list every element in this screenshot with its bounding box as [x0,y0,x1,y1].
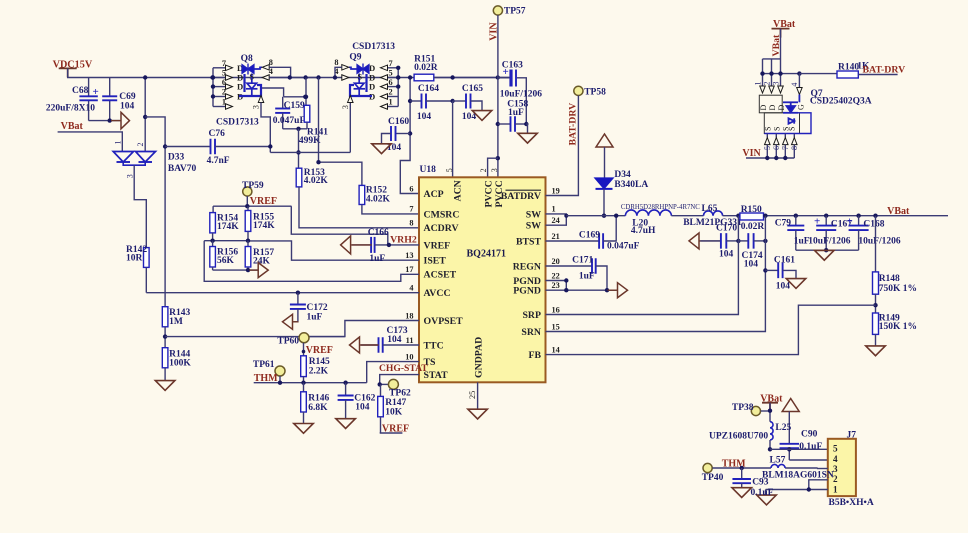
wire TP38 node [761,410,770,412]
svg-text:14: 14 [552,345,560,354]
wire switch node row [270,151,350,153]
wire arrow to C90 [788,412,790,444]
svg-text:C168: C168 [863,219,884,229]
net label VREF at R147 [380,424,409,435]
capacitor C174 [738,233,765,269]
wire pin2 pin1 [809,480,828,490]
wire to ground J7 [765,490,767,495]
svg-text:GNDPAD: GNDPAD [473,337,484,378]
svg-text:5: 5 [833,444,838,454]
svg-text:ISET: ISET [424,256,447,267]
svg-text:VBat: VBat [887,206,910,217]
svg-text:1: 1 [833,484,838,494]
wire cap ground bus [796,249,859,251]
wire SRP column [546,216,739,315]
svg-text:10uF/1206: 10uF/1206 [808,236,850,246]
pin PGND U18 [513,281,560,297]
testpoint TP60 [277,333,309,347]
svg-text:BQ24171: BQ24171 [467,249,506,260]
svg-text:+: + [93,86,99,98]
svg-text:+: + [503,66,509,78]
svg-text:L57: L57 [770,456,786,466]
svg-text:56K: 56K [217,256,235,266]
svg-text:C172: C172 [307,303,328,313]
resistor R142 [126,245,149,268]
svg-text:1: 1 [222,98,226,107]
wire C68 C69 bottom [89,120,120,122]
svg-text:CDRH5D28RHPNP-4R7NC: CDRH5D28RHPNP-4R7NC [621,204,700,211]
svg-text:C164: C164 [418,84,439,94]
wire arrow to D34 [604,147,606,178]
svg-text:CSD17313: CSD17313 [352,42,395,52]
svg-text:D: D [369,63,375,73]
resistor R154 [210,206,239,241]
svg-text:1uF: 1uF [579,271,595,281]
resistor R153 [296,168,328,187]
svg-text:0.02R: 0.02R [414,63,438,73]
svg-text:VBat: VBat [61,121,84,132]
svg-text:1uF: 1uF [307,313,323,323]
ground under GNDPAD [468,409,488,419]
testpoint TP40 [702,463,724,483]
wire VREF net to C166 [291,206,388,245]
svg-text:6.8K: 6.8K [308,403,328,413]
svg-text:PGND: PGND [513,286,541,297]
svg-text:R150: R150 [741,205,762,215]
wire pin5 row [770,448,828,450]
wire ACN column x410 [400,78,419,194]
capacitor C164 [410,84,453,122]
transistor Q7 CSD25402Q3A [753,82,871,159]
svg-text:PVCC: PVCC [494,180,505,207]
resistor R144 [162,348,191,381]
testpoint TP57 [493,6,525,17]
svg-text:4.02K: 4.02K [304,176,329,186]
svg-text:L65: L65 [702,204,718,214]
inductor L20 [621,204,700,236]
svg-text:D: D [768,105,777,111]
svg-text:BAT-DRV: BAT-DRV [568,103,579,146]
svg-text:5: 5 [445,168,454,172]
wire Q8 pin8 loop [269,67,290,77]
svg-text:G: G [797,104,806,110]
pin TTC U18 [406,336,444,352]
svg-text:C93: C93 [752,478,769,488]
svg-text:174K: 174K [253,221,275,231]
svg-text:D: D [777,105,786,111]
svg-text:750K 1%: 750K 1% [879,284,917,294]
wire R152 to CMSRC [362,205,419,214]
svg-text:S: S [358,73,363,82]
svg-text:BAV70: BAV70 [168,164,197,174]
svg-text:3: 3 [490,168,499,172]
pin AVCC U18 [409,284,450,300]
svg-text:R148: R148 [879,274,900,284]
svg-text:0.1uF: 0.1uF [799,442,822,452]
svg-text:220uF/8X10: 220uF/8X10 [46,104,95,114]
svg-text:C160: C160 [388,117,409,127]
svg-text:B340LA: B340LA [614,180,648,190]
svg-text:VREF: VREF [306,345,333,356]
diode D33 BAV70 [113,152,196,175]
capacitor C76 [165,129,270,166]
svg-text:4: 4 [790,83,799,87]
resistor R141 [299,105,328,146]
svg-text:2: 2 [222,88,226,97]
svg-text:L25: L25 [775,423,791,433]
pin SRP U18 [522,305,559,321]
svg-text:8: 8 [269,58,273,67]
capacitor C170 [700,224,738,260]
capacitor C159 [273,97,306,129]
svg-text:D: D [369,82,375,92]
wire L20 to L65 [671,215,703,217]
svg-text:S: S [773,127,782,131]
svg-text:BAT-DRV: BAT-DRV [863,65,906,76]
wire rail to R152 branch [319,78,362,186]
svg-text:7: 7 [409,205,413,214]
resistor R143 [162,307,190,348]
wire R153 to ACDRV [299,187,419,228]
svg-text:2: 2 [762,82,771,86]
pin PGND U18 [513,271,560,287]
power arrow at C172 [293,321,299,323]
ground under C93 [732,488,752,498]
svg-text:C171: C171 [572,256,593,266]
svg-text:4.7uH: 4.7uH [631,226,656,236]
power port VDC15V [53,60,93,78]
op-amp U18 BQ24171 body [419,165,546,382]
svg-text:0.02R: 0.02R [741,222,765,232]
wire Q8 gate to C159 [262,88,284,97]
svg-text:CMSRC: CMSRC [424,209,460,220]
svg-text:6: 6 [409,184,413,193]
wire VBat to Q7 drains [780,29,782,87]
svg-text:BTST: BTST [516,236,542,247]
ground under R146 [294,424,314,434]
svg-text:1M: 1M [169,317,183,327]
svg-text:CSD17313: CSD17313 [216,118,259,128]
inductor L25 UPZ1608U700 [709,422,791,442]
pin OVPSET U18 [405,311,463,327]
pin SW U18 [526,205,556,221]
wire rail to D33 pin2 [144,78,146,152]
ground under J7 pins [757,495,777,505]
svg-text:104: 104 [776,281,791,291]
svg-text:2: 2 [389,88,393,97]
pin REGN U18 [513,257,560,273]
svg-text:6: 6 [389,78,393,87]
power arrow at C166 [351,244,372,246]
resistor R155 [245,206,275,241]
wire Q9 pin3 drop [349,103,351,153]
svg-text:J7: J7 [847,431,857,441]
transistor Q9 CSD17313 [333,42,401,109]
ground under R144 [155,381,175,391]
svg-text:D: D [237,82,243,92]
capacitor C93 [732,468,773,498]
resistor R157 [245,241,274,270]
svg-text:4: 4 [833,454,838,464]
svg-text:1: 1 [389,98,393,107]
wire PGND pins [546,281,567,291]
resistor R148 [873,216,917,313]
svg-text:D33: D33 [168,152,185,162]
wire OVPSET row [165,336,345,338]
svg-text:104: 104 [744,259,759,269]
svg-text:104: 104 [719,250,734,260]
svg-text:C79: C79 [775,219,792,229]
svg-text:19: 19 [552,186,560,195]
svg-text:BATDRV: BATDRV [501,191,541,202]
wire rail branch to R143 column [145,117,165,307]
transistor Q8 CSD17313 [210,54,320,153]
svg-text:104: 104 [387,335,402,345]
resistor R140 [799,61,897,78]
svg-text:R140: R140 [838,63,859,73]
svg-text:ACSET: ACSET [424,270,457,281]
power arrow above D34 [596,134,613,147]
resistor R149 [873,313,917,346]
wire VREF row [246,196,248,206]
ground under C165 [472,111,492,121]
svg-text:ACDRV: ACDRV [424,223,459,234]
capacitor C69 [102,78,136,121]
svg-text:S: S [764,127,773,131]
ferrite bead L57 BLM18AG601SN [762,456,834,481]
capacitor C160 [382,117,411,153]
svg-text:OVPSET: OVPSET [424,316,464,327]
capacitor C79 [775,216,810,251]
svg-text:16: 16 [552,305,560,314]
svg-text:D: D [759,105,768,111]
capacitor C166 [352,228,419,264]
capacitor C171 [546,256,608,291]
wire THM row [254,382,367,384]
testpoint TP38 [732,403,761,416]
svg-text:Q9: Q9 [349,53,361,63]
svg-text:TP61: TP61 [253,360,275,370]
capacitor C168 [847,216,901,251]
svg-text:1: 1 [113,141,122,145]
svg-text:TTC: TTC [424,340,444,351]
svg-text:TP58: TP58 [584,88,606,98]
wire divider mid row [204,240,248,242]
wire R142 to AVCC row [145,267,147,292]
wire VBat rail right [764,215,949,217]
wire gate node row [284,96,306,98]
svg-text:SW: SW [526,221,541,232]
svg-text:5: 5 [222,69,226,78]
svg-text:S: S [250,73,255,82]
resistor R145 [301,356,330,383]
wire ACN column [452,101,454,177]
wire AVCC row [146,292,419,294]
svg-text:VRH2: VRH2 [390,234,417,245]
wire THM row J7 [712,467,741,469]
ground under caps [815,250,835,260]
svg-text:C68: C68 [72,86,89,96]
svg-text:TP40: TP40 [702,473,724,483]
svg-text:R146: R146 [308,393,329,403]
wire TS connection [367,362,419,383]
pin CMSRC U18 [409,205,459,221]
pin TS U18 [405,352,436,368]
wire Q8 pin4 to rail [269,77,318,79]
capacitor C165 [453,84,484,122]
ground under C162 [336,419,356,429]
svg-text:13: 13 [405,251,413,260]
svg-text:20: 20 [552,257,560,266]
wire VIN bus [746,157,794,159]
svg-text:ACP: ACP [424,189,444,200]
power port VBat Q7 [772,19,796,38]
svg-text:SRN: SRN [521,327,541,338]
wire C158 to ground [526,124,527,133]
ferrite bead L65 BLM21PG331 [683,204,742,228]
svg-text:CSD25402Q3A: CSD25402Q3A [810,97,872,107]
wire VBat to D33 pin1 [58,132,123,152]
resistor R152 [359,185,390,204]
svg-text:10R: 10R [126,254,143,264]
svg-text:24: 24 [552,216,560,225]
svg-text:CHG-STAT: CHG-STAT [379,363,428,374]
svg-text:UPZ1608U700: UPZ1608U700 [709,431,768,441]
svg-text:25: 25 [468,391,477,399]
svg-text:D34: D34 [614,170,631,180]
svg-text:0.047uF: 0.047uF [273,116,306,126]
power arrow up J7 [782,399,799,412]
connector J7 B5B-XH-A [828,431,874,509]
svg-text:C161: C161 [774,255,795,265]
svg-text:TP38: TP38 [732,403,754,413]
svg-text:3: 3 [252,105,261,109]
svg-text:3: 3 [771,82,780,86]
wire VDC15V rail [68,68,510,77]
svg-text:22: 22 [552,271,560,280]
pin ACSET U18 [405,265,456,281]
svg-text:VREF: VREF [424,240,451,251]
ground under C160 [372,144,392,154]
wire TP58 to BATDRV pin [546,96,579,196]
svg-text:C165: C165 [462,84,483,94]
svg-text:SRP: SRP [522,310,541,321]
svg-text:3: 3 [341,105,350,109]
svg-text:4.02K: 4.02K [366,194,391,204]
svg-text:10K: 10K [385,407,403,417]
svg-text:1: 1 [552,205,556,214]
svg-text:R145: R145 [309,357,330,367]
svg-text:FB: FB [528,350,541,361]
svg-text:VBat: VBat [773,19,796,30]
svg-text:21: 21 [552,232,560,241]
resistor R150 [740,205,764,232]
svg-text:7: 7 [389,59,393,68]
pin SRN U18 [521,322,559,338]
wire SW pins out [546,214,567,225]
svg-text:C169: C169 [579,231,600,241]
wire FB [546,305,876,354]
svg-text:0.047uF: 0.047uF [607,241,640,251]
pin ACP U18 [409,184,443,200]
svg-text:S: S [788,127,797,131]
svg-text:10: 10 [405,352,413,361]
wire ISET from divider [248,241,419,260]
testpoint TP58 [574,86,606,97]
svg-text:18: 18 [405,311,413,320]
wire pin4 row [789,459,828,461]
pin STAT U18 [424,370,449,381]
svg-text:1uF: 1uF [508,108,524,118]
power arrow PGND [608,289,618,291]
wire L65 to R150 [723,215,740,217]
svg-text:SW: SW [526,209,541,220]
svg-text:100K: 100K [169,358,191,368]
svg-text:2: 2 [479,168,488,172]
svg-text:174K: 174K [217,222,239,232]
svg-text:1uF: 1uF [369,254,385,264]
svg-text:C76: C76 [209,129,226,139]
svg-text:C90: C90 [801,429,818,439]
pin FB U18 [528,345,559,361]
svg-text:104: 104 [120,102,135,112]
svg-text:4: 4 [409,284,413,293]
svg-text:6: 6 [222,78,226,87]
capacitor C161 [765,255,796,291]
capacitor C169 [546,216,640,252]
capacitor C163 [498,61,542,125]
ground under C161 [786,279,806,289]
svg-text:23: 23 [552,281,560,290]
svg-text:17: 17 [405,265,413,274]
svg-text:4: 4 [269,67,273,76]
pin ACDRV U18 [409,219,458,235]
ground under R149 [866,346,886,356]
power port VBat J7 [760,394,783,412]
pin BATDRV U18 [501,186,560,202]
svg-text:U18: U18 [420,165,437,175]
wire Q9 bracket to rail [396,75,400,79]
wire Q7 gate pin4 [798,74,800,88]
wire TP60 to R145 [303,343,305,356]
svg-text:8: 8 [409,219,413,228]
svg-text:C166: C166 [368,228,389,238]
svg-text:BLM18AG601SN: BLM18AG601SN [762,470,834,480]
ground under C158 [518,133,538,143]
pin 25 GNDPAD stub [468,382,477,409]
power arrow at R157 [249,269,258,271]
testpoint TP62 [388,379,411,398]
wire C159 R141 bottom [283,128,307,130]
svg-text:C159: C159 [284,101,305,111]
wire R151 to C163 [434,77,510,79]
resistor R147 [378,384,407,433]
wire pin3 stub [817,468,828,470]
wire L25 to pin5 row [769,440,771,449]
svg-text:10uF/1206: 10uF/1206 [858,236,900,246]
wire divider bottom row [213,269,259,271]
wire SRN column [546,216,766,332]
pin SW U18 [526,216,560,232]
wire SW node [566,215,625,217]
wire to R153 top [298,129,300,168]
wire D33 pin3 to R142 [134,165,146,247]
testpoint TP61 [253,360,285,376]
svg-text:104: 104 [417,112,432,122]
svg-text:TP59: TP59 [242,181,264,191]
wire PVCC pins [488,158,498,177]
power arrow VBat right [111,120,121,122]
